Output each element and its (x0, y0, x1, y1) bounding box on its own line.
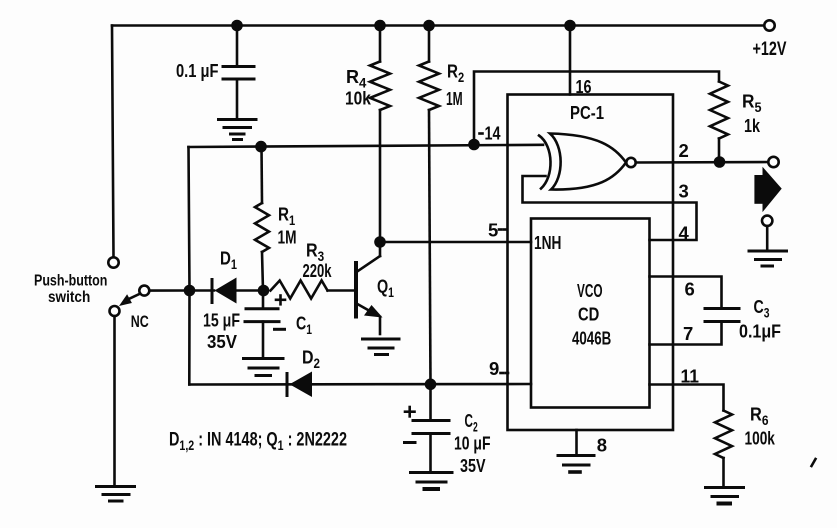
terminal output jack ground side (762, 216, 772, 226)
switch arm with arrow (127, 294, 140, 300)
resistor R2 (428, 26, 431, 62)
ground (C2) (411, 473, 453, 490)
svg-text:1M: 1M (446, 88, 463, 109)
wire pin 5 (380, 241, 531, 244)
ground (0.1uF) (219, 120, 257, 140)
wire pin 2 output (636, 161, 769, 164)
svg-text:14: 14 (485, 123, 502, 144)
node Q1 collector / R4 / pin5 (374, 236, 386, 248)
svg-text:+12V: +12V (753, 39, 787, 60)
resistor R4 (379, 26, 382, 62)
terminal output jack top (768, 157, 778, 167)
svg-text:15 μF: 15 μF (203, 310, 240, 331)
wire pin 16 (569, 26, 572, 95)
wire R5 feed from pin14 node (474, 72, 719, 145)
svg-text:5: 5 (488, 220, 498, 241)
wire +12V top rail (112, 24, 764, 27)
node pin2 / R5 (714, 156, 726, 168)
wire jack to ground (766, 226, 769, 250)
output arrow symbol (754, 175, 763, 204)
svg-text:9: 9 (489, 358, 499, 379)
svg-text:220k: 220k (303, 260, 333, 281)
svg-text:3: 3 (679, 181, 689, 202)
transistor Q1 (354, 261, 358, 319)
ground (switch) (97, 487, 135, 502)
ground (C1) (244, 359, 284, 376)
svg-text:D1,2 : IN 4148; Q1 : 2N2222: D1,2 : IN 4148; Q1 : 2N2222 (169, 430, 347, 454)
wire pin 8 (575, 430, 578, 455)
svg-text:VCO: VCO (577, 280, 603, 301)
svg-text:100k: 100k (745, 428, 776, 449)
wire pin 6 (650, 277, 722, 309)
svg-text:switch: switch (48, 289, 90, 306)
wire mid vertical pin14 to D2 line (189, 147, 190, 385)
capacitor C1 15uF (262, 291, 265, 309)
svg-text:10k: 10k (345, 88, 371, 109)
IC U1 inner VCO box (531, 219, 650, 408)
resistor R1 (260, 147, 263, 203)
svg-text:0.1 μF: 0.1 μF (176, 60, 219, 81)
capacitor C3 (705, 307, 739, 310)
transistor Q1 base wire (328, 289, 355, 292)
ground (output jack) (749, 251, 787, 266)
svg-text:8: 8 (597, 435, 607, 456)
node R1 top (255, 141, 267, 153)
svg-text:PC-1: PC-1 (570, 102, 604, 123)
capacitor C2 10uF (429, 384, 432, 420)
wire 0.1uF cap bottom (236, 79, 239, 118)
minus sign C2 (405, 441, 416, 444)
wire 0.1uF cap top (236, 26, 239, 66)
wire NC to ground (113, 316, 116, 486)
plus sign C1 (276, 296, 285, 305)
svg-text:0.1μF: 0.1μF (739, 321, 781, 342)
node switch / mid vertical (184, 285, 196, 297)
wire left rail drop (112, 26, 114, 258)
wire XOR lower input wrap (523, 176, 697, 240)
wire node to D1 (190, 289, 215, 292)
svg-text:1M: 1M (278, 227, 297, 248)
svg-text:1NH: 1NH (534, 232, 561, 253)
op-amp U1 XOR gate PC-1 (539, 136, 551, 189)
switch common terminal (139, 286, 149, 296)
node top rail / pin 16 (564, 20, 576, 32)
switch terminal top (108, 257, 118, 267)
wire switch common to node (149, 289, 189, 292)
terminal +12V open circle (764, 20, 774, 30)
svg-text:4: 4 (679, 223, 690, 244)
svg-text:4046B: 4046B (572, 328, 611, 349)
resistor R3 (271, 281, 328, 299)
diode D2 (286, 374, 289, 396)
svg-text:Push-button: Push-button (34, 273, 107, 290)
node top rail / 0.1uF (231, 20, 243, 32)
capacitor 0.1uF bypass (223, 65, 254, 68)
node top rail / R4 (374, 20, 386, 32)
ground (Q1) (363, 339, 400, 355)
minus sign C1 (275, 328, 285, 331)
svg-text:1k: 1k (744, 115, 761, 136)
stray tick mark (812, 459, 816, 466)
wire pin 7 (650, 322, 722, 345)
wire pin 11 (650, 385, 724, 411)
svg-text:7: 7 (683, 323, 693, 344)
ground (R6) (706, 488, 744, 504)
diode D1 (211, 280, 214, 303)
node pin14 / R5 riser (468, 139, 480, 151)
wire pin 14 input line (189, 145, 544, 147)
svg-text:35V: 35V (207, 331, 238, 352)
svg-text:10 μF: 10 μF (454, 433, 491, 454)
svg-text:11: 11 (681, 366, 700, 387)
svg-text:35V: 35V (460, 455, 486, 476)
svg-text:2: 2 (679, 140, 689, 161)
wire pin9 / D2 line (189, 383, 531, 386)
ground (pin 8) (558, 456, 594, 473)
resistor R5 (710, 82, 728, 139)
plus sign C2 (405, 407, 415, 416)
node pin9 / R2 / C2 (425, 379, 437, 391)
node top rail / R2 (423, 20, 435, 32)
node D1 / R1 / C1 / R3 (258, 285, 270, 297)
svg-text:6: 6 (685, 279, 695, 300)
resistor R6 (715, 411, 732, 459)
IC U1 outer box CD4046 PC-1 section (508, 95, 674, 431)
svg-text:CD: CD (578, 304, 599, 325)
switch NC terminal (110, 306, 120, 316)
svg-text:NC: NC (131, 312, 149, 331)
wire R2 to pin 9 node (429, 110, 431, 384)
